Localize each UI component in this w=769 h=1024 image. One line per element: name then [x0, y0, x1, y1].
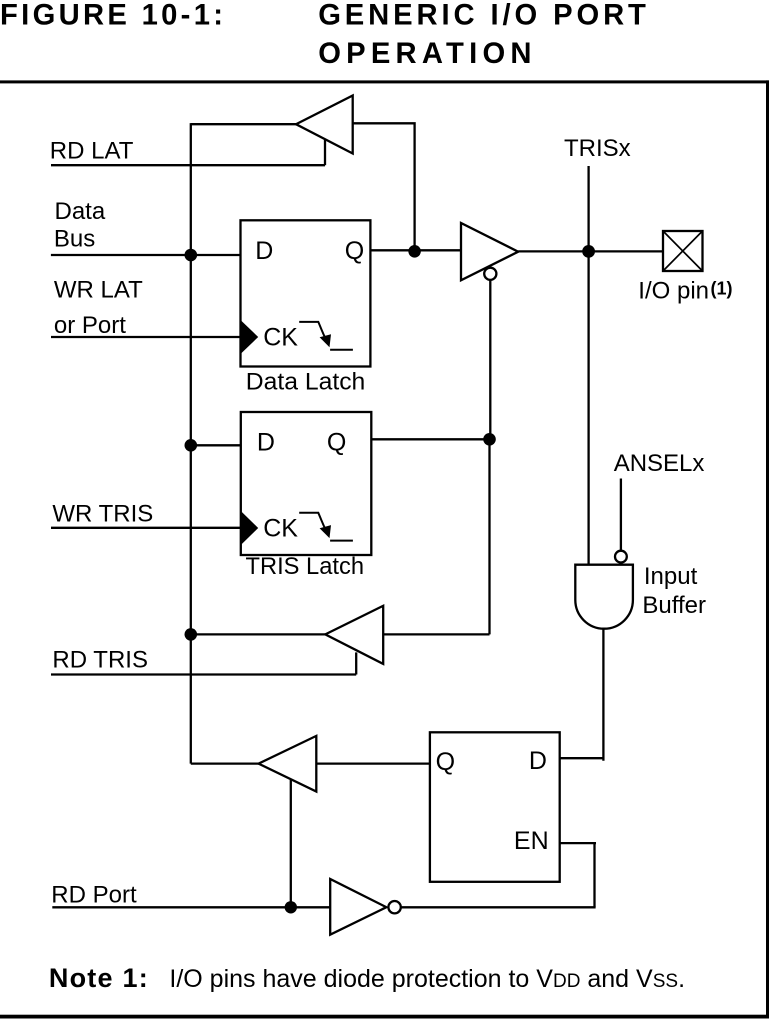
svg-text:ANSELx: ANSELx [614, 450, 705, 477]
top rule of figure frame [0, 80, 769, 83]
wire: input buffer output to latch D [560, 629, 604, 761]
svg-text:Q: Q [327, 429, 346, 457]
wire: U5 input [383, 633, 489, 635]
wire: U3 enable to TRIS latch Q [489, 280, 491, 439]
svg-text:I/O pins have diode protection: I/O pins have diode protection to VDD an… [169, 965, 685, 993]
wire: U8 enable [290, 780, 292, 907]
wire WR TRIS [51, 527, 241, 529]
svg-text:(1): (1) [711, 279, 733, 299]
clock wedge: Data Latch CK [241, 320, 259, 354]
node PAD: junction pad net / input buffer tap [582, 245, 595, 258]
wire: U9 output to EN [401, 906, 596, 908]
svg-text:Bus: Bus [54, 226, 95, 253]
svg-text:WR LAT: WR LAT [54, 276, 143, 303]
bubble: U3 enable (active low) [484, 268, 496, 280]
svg-text:Note 1:: Note 1: [49, 963, 148, 993]
svg-text:RD TRIS: RD TRIS [52, 647, 148, 674]
falling edge icon: Data Latch [299, 322, 325, 339]
node: junction RD Port / U8 enable [285, 901, 297, 913]
falling edge arrowhead: TRIS Latch [320, 525, 331, 538]
wire: U7 Q output [316, 762, 430, 764]
svg-text:WR TRIS: WR TRIS [52, 501, 153, 528]
latch U4 TRIS Latch box [241, 412, 371, 555]
latch U2 Data Latch box [241, 220, 371, 366]
wire: TRIS latch Q output [371, 438, 489, 440]
falling edge icon: TRIS Latch [299, 513, 325, 530]
bubble: ANSELx inverter [615, 551, 627, 563]
buffer U8 RD Port readback [259, 736, 317, 792]
node: junction data bus / Data Latch D [185, 249, 198, 262]
clock wedge: TRIS Latch CK [241, 511, 258, 545]
wire: U7 EN input [560, 843, 596, 907]
svg-text:Q: Q [345, 237, 364, 265]
wire: U8 output to trunk [191, 762, 259, 764]
svg-text:RD Port: RD Port [51, 882, 137, 909]
wire: TRIS latch D input [191, 444, 241, 446]
buffer U5 RD TRIS readback [325, 606, 383, 664]
falling edge arrowhead: Data Latch [320, 334, 331, 347]
wire: node T vertical to RD TRIS buffer [488, 439, 490, 634]
svg-text:Data Latch: Data Latch [246, 369, 365, 396]
gate U6 input buffer [575, 565, 633, 629]
wire: U1 enable [324, 140, 326, 166]
wire WR LAT or Port [51, 336, 241, 338]
svg-text:or Port: or Port [54, 312, 126, 339]
right border of figure frame [766, 80, 769, 1018]
bottom rule of figure frame [0, 1015, 769, 1019]
pad I/O pin symbol [663, 231, 703, 271]
wire: Data Latch Q output to node Q1 [370, 249, 461, 251]
svg-text:CK: CK [263, 323, 298, 351]
wire TRISx / pad tap to input buffer [587, 166, 589, 565]
wire ANSELx [620, 479, 622, 551]
wire: U1 output to trunk [191, 123, 296, 125]
svg-text:Q: Q [436, 748, 455, 776]
svg-text:GENERIC I/O PORT: GENERIC I/O PORT [318, 0, 646, 31]
svg-text:EN: EN [514, 827, 549, 855]
node: junction trunk / TRIS Latch D [185, 439, 198, 452]
node: junction trunk / U5 output [185, 628, 198, 641]
wire: U5 output to trunk [191, 633, 325, 635]
wire RD TRIS [51, 673, 356, 675]
svg-text:TRIS Latch: TRIS Latch [246, 553, 365, 580]
svg-text:D: D [255, 237, 273, 265]
svg-text:TRISx: TRISx [564, 135, 631, 162]
wire RD LAT [51, 164, 325, 166]
wire: data bus horizontal [51, 254, 241, 256]
bubble: U9 output inversion [388, 901, 400, 913]
svg-text:RD LAT: RD LAT [50, 137, 134, 164]
node T: junction TRIS Q / U3 enable [483, 433, 496, 446]
wire RD Port [52, 906, 330, 908]
svg-text:Buffer: Buffer [642, 592, 706, 619]
svg-text:Data: Data [55, 198, 106, 225]
node Q1: junction Data Latch Q / U1 input [408, 245, 421, 258]
svg-text:FIGURE 10-1:: FIGURE 10-1: [0, 0, 223, 31]
wire: data bus vertical trunk [190, 123, 192, 764]
svg-text:OPERATION: OPERATION [318, 38, 531, 70]
buffer U3 output driver [461, 223, 518, 280]
wire: U5 enable [355, 652, 357, 674]
svg-text:D: D [257, 429, 275, 457]
latch U7 port read latch box [430, 732, 560, 882]
svg-text:CK: CK [263, 515, 298, 543]
wire: pad net to I/O pin [518, 250, 663, 252]
svg-text:D: D [529, 747, 547, 775]
svg-text:Input: Input [644, 563, 698, 590]
svg-text:I/O pin: I/O pin [638, 278, 709, 305]
wire: U1 input from node Q1 [353, 123, 415, 251]
buffer U9 RD Port strobe inverter [330, 879, 386, 935]
buffer U1 RD LAT readback [296, 96, 353, 154]
